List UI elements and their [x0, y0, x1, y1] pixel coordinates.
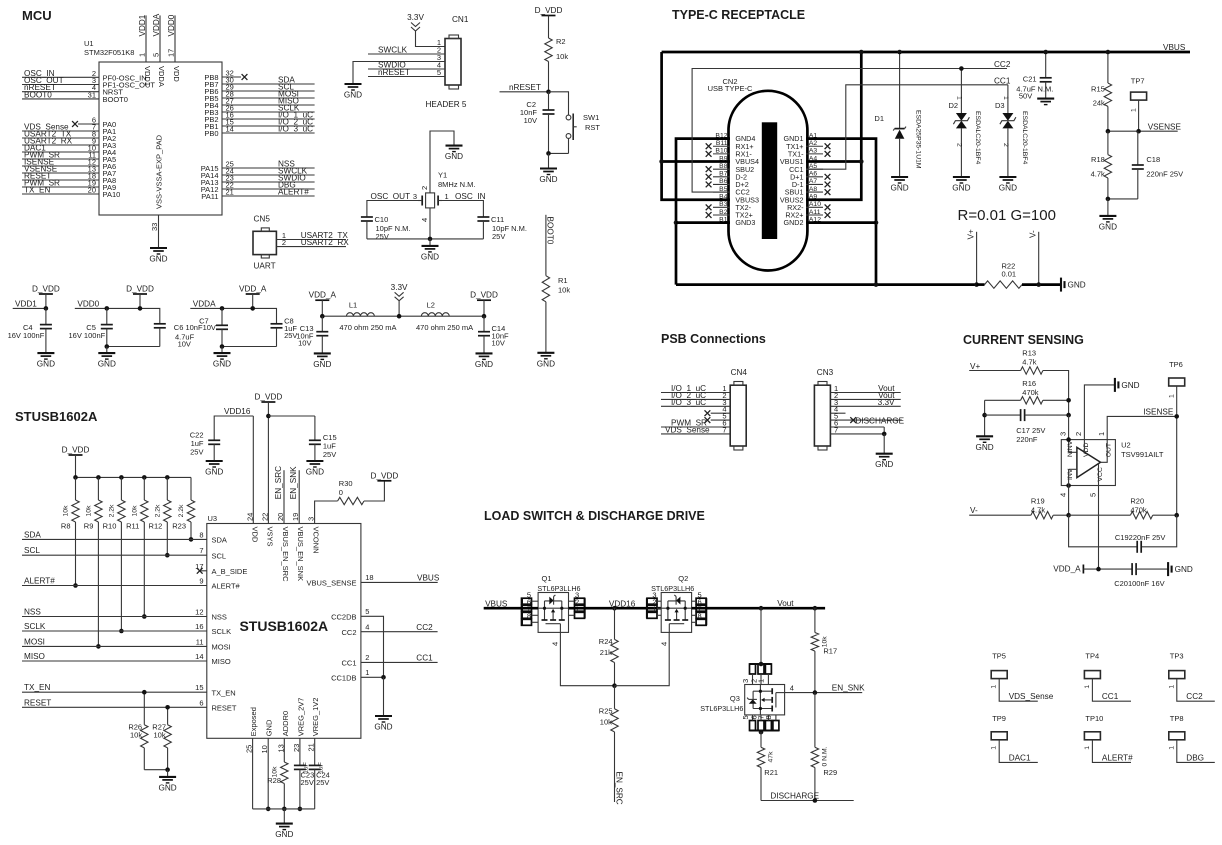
transistor Q1 [538, 593, 568, 633]
junction A4 VBUS [859, 159, 864, 164]
wire TP7 to VSENSE [1138, 100, 1140, 131]
wire BOOT0 to U1 pin 31 [22, 98, 99, 100]
junction nRESET/R2/C2/SW1 [546, 90, 551, 95]
svg-text:SCLK: SCLK [212, 627, 232, 636]
svg-text:8MHz N.M.: 8MHz N.M. [438, 180, 476, 189]
resistor R2 [548, 16, 550, 39]
svg-text:TYPE-C RECEPTACLE: TYPE-C RECEPTACLE [672, 8, 805, 22]
svg-text:ALERT#: ALERT# [212, 582, 241, 591]
wire 3.3V to CN1 pin 1 [416, 31, 446, 47]
U3 pin 17 no-connect stub [200, 570, 207, 572]
ground below C13 [314, 352, 331, 354]
wire V+ tap [976, 232, 978, 285]
resistor R11 [143, 477, 145, 500]
svg-text:C17 25V: C17 25V [1016, 426, 1045, 435]
svg-text:C10: C10 [375, 215, 389, 224]
svg-text:R10: R10 [103, 522, 117, 531]
wire PWM_SR to CN4 pin 6 [661, 426, 730, 428]
svg-text:STL6P3LLH6: STL6P3LLH6 [700, 704, 743, 713]
svg-text:TP3: TP3 [1170, 651, 1184, 660]
svg-text:V-: V- [970, 506, 978, 515]
svg-text:GND: GND [1068, 281, 1086, 290]
svg-text:3.3V: 3.3V [391, 283, 408, 292]
inductor L2 [421, 313, 449, 317]
svg-text:4: 4 [420, 218, 429, 222]
svg-text:2: 2 [365, 653, 369, 662]
svg-text:TX_EN: TX_EN [24, 683, 50, 692]
svg-text:STUSB1602A: STUSB1602A [239, 618, 328, 634]
resistor R17 [814, 608, 816, 632]
svg-text:7: 7 [722, 425, 726, 434]
no-connect X on CN4 pin 5 [705, 417, 711, 423]
wire TP10 to ALERT# [1092, 740, 1131, 763]
wire VBUS to D1 [899, 52, 901, 129]
svg-text:B2: B2 [719, 209, 728, 216]
CN2 pin B8 stub [713, 168, 730, 170]
junction R9 bottom [96, 644, 101, 649]
CN2 pin B12 stub [713, 138, 730, 140]
power 3.3V at filter [395, 292, 404, 296]
wire CC2DB from U3 pin 5 [361, 616, 384, 677]
svg-text:10k: 10k [131, 505, 138, 517]
svg-text:21: 21 [307, 743, 316, 751]
svg-text:R9: R9 [84, 522, 94, 531]
svg-text:R12: R12 [149, 522, 163, 531]
junction Vout R17 [813, 606, 818, 611]
svg-text:8: 8 [527, 612, 531, 621]
junction C7 ground [220, 344, 225, 349]
wire OSC_OUT to C10 [367, 201, 418, 218]
svg-text:1: 1 [138, 53, 147, 57]
svg-text:ESDA25P35-1U1M: ESDA25P35-1U1M [915, 110, 922, 169]
connector CN2 shell [729, 91, 808, 271]
ground rail at receptacle bottom [676, 283, 977, 286]
svg-text:470 ohm 250 mA: 470 ohm 250 mA [416, 323, 473, 332]
wire TP5 to VDS_Sense [999, 679, 1038, 702]
svg-text:2: 2 [956, 143, 963, 147]
svg-text:PA10: PA10 [103, 190, 121, 199]
svg-text:VBUS_EN_SRC: VBUS_EN_SRC [281, 527, 290, 583]
svg-text:GND: GND [445, 152, 463, 161]
no-connect X on A8 [825, 189, 831, 195]
svg-text:TP9: TP9 [992, 714, 1006, 723]
svg-text:R18: R18 [1091, 155, 1105, 164]
U3 bottom ground bus [253, 808, 315, 810]
svg-text:4: 4 [365, 622, 369, 631]
wire OSC_IN to U1 pin 2 [22, 76, 99, 78]
capacitor C21 [1040, 77, 1052, 79]
svg-text:CN4: CN4 [731, 368, 748, 377]
svg-text:VCONN: VCONN [312, 527, 321, 554]
wire SWDIO from U1 pin 23 [222, 181, 315, 183]
junction pull-up bus R12 [165, 475, 170, 480]
svg-text:CC2: CC2 [416, 623, 433, 632]
wire SDA from U1 pin 30 [222, 83, 315, 85]
wire Q1 pin 4 gate [560, 632, 614, 685]
ground below Y1 [422, 245, 439, 247]
resistor R12 [166, 477, 168, 500]
svg-text:ALERT#: ALERT# [24, 577, 55, 586]
Q1 drain pins 3 2 1 [584, 598, 586, 618]
wire VBUS from U3 pin 18 [361, 581, 438, 583]
CN4 pin 4 no-connect stub [711, 412, 731, 414]
svg-text:R15: R15 [1091, 85, 1105, 94]
transistor Q2 [661, 593, 691, 633]
wire V- to R20 [1069, 514, 1131, 516]
svg-text:1: 1 [652, 605, 656, 614]
svg-text:R11: R11 [126, 522, 139, 531]
svg-text:EN_SRC: EN_SRC [615, 772, 624, 805]
svg-text:EN_SNK: EN_SNK [289, 466, 298, 499]
wire C19 feedback loop [1069, 515, 1138, 547]
svg-text:9: 9 [199, 577, 203, 586]
svg-text:Q1: Q1 [542, 574, 552, 583]
Q2 drain pins 3 2 1 [646, 598, 648, 618]
Q2 source pins 5 6 7 8 [705, 598, 707, 625]
wire I/O_3_uC from U1 pin 14 [222, 132, 315, 134]
svg-text:50V: 50V [1019, 91, 1032, 100]
svg-text:GND: GND [875, 460, 893, 469]
svg-text:10k: 10k [85, 505, 92, 517]
wire V- row [969, 514, 1031, 516]
svg-text:CC2: CC2 [1186, 692, 1203, 701]
junction 3.3V [397, 314, 402, 319]
resistor R26 [141, 725, 148, 748]
resistor R18 [1107, 131, 1109, 154]
wire D_VDD to rail [483, 300, 485, 316]
wire B12 GND drop [676, 139, 730, 285]
svg-text:MISO: MISO [212, 657, 231, 666]
svg-text:1: 1 [757, 679, 766, 683]
svg-text:21k: 21k [600, 648, 612, 657]
wire NSS from U1 pin 25 [222, 167, 315, 169]
wire VBUS riser A4 A9 [806, 52, 861, 200]
svg-text:Exposed: Exposed [249, 707, 258, 736]
svg-text:3: 3 [307, 517, 316, 521]
CN2 pin B11 stub [713, 145, 730, 147]
svg-text:DBG: DBG [1186, 753, 1204, 762]
svg-text:7: 7 [199, 546, 203, 555]
svg-text:VDD_A: VDD_A [1053, 565, 1081, 574]
wire TP8 to DBG [1177, 740, 1215, 763]
svg-text:SWCLK: SWCLK [378, 46, 408, 55]
svg-text:A6: A6 [809, 171, 818, 178]
svg-text:R21: R21 [764, 768, 778, 777]
junction C13 [320, 314, 325, 319]
svg-text:220nF: 220nF [1016, 435, 1038, 444]
svg-text:R20: R20 [1130, 497, 1144, 506]
svg-text:TX_EN: TX_EN [212, 688, 236, 697]
wire C17 row left [984, 400, 986, 436]
power 3.3V at CN1 [411, 23, 420, 27]
svg-text:R23: R23 [172, 522, 186, 531]
svg-text:SCL: SCL [24, 546, 40, 555]
wire V- tap [1038, 232, 1040, 285]
svg-text:20: 20 [88, 186, 96, 195]
svg-text:CC1DB: CC1DB [331, 674, 356, 683]
resistor R27 [164, 725, 171, 748]
capacitor C24 [314, 738, 316, 765]
svg-text:V-: V- [1029, 230, 1038, 238]
U1 pin 6 no-connect stub [78, 123, 99, 125]
junction R15 R18 VSENSE [1106, 129, 1111, 134]
wire CN3 pin 6 to ground [830, 426, 884, 428]
svg-text:B10: B10 [715, 148, 727, 155]
CN2 pin B3 stub [713, 206, 730, 208]
wire CCDB to ground [383, 677, 385, 716]
svg-text:25V: 25V [316, 778, 329, 787]
junction C17 left [982, 413, 987, 418]
capacitor C17 [985, 414, 1021, 416]
junction R19 pin4 [1066, 513, 1071, 518]
svg-text:ALERT#: ALERT# [278, 188, 309, 197]
svg-text:1: 1 [1169, 394, 1176, 398]
svg-text:VDD: VDD [250, 527, 259, 543]
svg-text:VREG_2V7: VREG_2V7 [296, 698, 305, 737]
connector CN5 body [253, 231, 276, 254]
svg-text:1: 1 [1168, 746, 1175, 750]
wire VDD1 rail [13, 307, 46, 309]
svg-text:12: 12 [195, 608, 203, 617]
no-connect X on A11 [825, 212, 831, 218]
wire U3 pin 24 VDD [252, 416, 254, 524]
svg-text:A7: A7 [809, 178, 818, 185]
svg-text:10: 10 [260, 745, 269, 753]
capacitor C10 [361, 216, 373, 218]
svg-text:CC1: CC1 [341, 659, 356, 668]
svg-text:D_VDD: D_VDD [371, 471, 399, 480]
wire CC1 to D3 [1007, 85, 1009, 113]
svg-text:LOAD SWITCH & DISCHARGE DRIVE: LOAD SWITCH & DISCHARGE DRIVE [484, 509, 705, 523]
no-connect X on U1 pin 32 [242, 74, 248, 80]
svg-text:ISENSE: ISENSE [1143, 408, 1174, 417]
svg-text:UART: UART [254, 262, 276, 271]
svg-text:13: 13 [276, 744, 285, 752]
CN2 pin B1 stub [713, 222, 730, 224]
switch SW1 [566, 115, 571, 120]
ground below D1 [891, 176, 908, 178]
svg-text:2.2k: 2.2k [108, 504, 115, 517]
power ground at C20 [1167, 562, 1169, 576]
svg-text:VDD1: VDD1 [15, 300, 37, 309]
Q1 source pins 5 6 7 8 [521, 598, 523, 625]
junction pull-up bus R9 [96, 475, 101, 480]
wire op-amp pin3 [1068, 415, 1070, 452]
svg-text:24k: 24k [1093, 99, 1105, 108]
svg-text:D_VDD: D_VDD [535, 6, 563, 15]
wire VDS_Sense to CN4 pin 7 [661, 433, 730, 435]
TVS diode D2 [956, 113, 967, 121]
svg-text:GND: GND [158, 783, 176, 792]
wire Vout from CN3 pin 2 [830, 398, 900, 400]
wire DISCHARGE from CN3 pin 5 [830, 419, 901, 421]
svg-text:R28: R28 [267, 776, 281, 785]
svg-text:8: 8 [199, 530, 203, 539]
wire EN_SRC stub to U3 pin 20 [283, 470, 285, 523]
svg-text:V+: V+ [967, 229, 976, 239]
svg-text:24: 24 [245, 513, 254, 521]
svg-text:D_VDD: D_VDD [470, 291, 498, 300]
svg-text:VDDA: VDDA [152, 13, 161, 36]
svg-text:A2: A2 [809, 140, 818, 147]
svg-text:VSS-VSSA-EXP_PAD: VSS-VSSA-EXP_PAD [155, 134, 164, 209]
wire CC1DB from U3 pin 1 [361, 676, 384, 678]
junction D2 CC2 [959, 66, 964, 71]
svg-text:17: 17 [195, 562, 203, 571]
wire VDD0 rail [75, 308, 160, 323]
svg-text:PA11: PA11 [201, 192, 218, 201]
STUSB1602A U3 body [207, 524, 361, 739]
svg-text:B11: B11 [716, 140, 728, 147]
wire DISCHARGE node [761, 800, 854, 802]
svg-text:220nF 25V: 220nF 25V [1146, 169, 1183, 178]
svg-text:470k: 470k [1022, 388, 1039, 397]
svg-text:VSYS: VSYS [265, 527, 274, 547]
wire TP3 to CC2 [1177, 679, 1215, 702]
no-connect X on U3 pin 17 [197, 568, 203, 574]
wire to ground [167, 770, 169, 777]
ground below C14 [476, 352, 493, 354]
wire U3 pin 25 Exposed [252, 738, 254, 809]
svg-text:USB TYPE-C: USB TYPE-C [708, 84, 753, 93]
svg-text:18: 18 [365, 573, 373, 582]
ground at CN1 pin 3 [345, 83, 362, 85]
svg-text:16: 16 [195, 622, 203, 631]
svg-text:0: 0 [339, 488, 343, 497]
connector CN3 body [814, 385, 830, 446]
no-connect X on A10 [825, 204, 831, 210]
CN2 pin A7 stub [806, 183, 823, 185]
junction pin10 bus [266, 807, 271, 812]
svg-text:GND: GND [313, 360, 331, 369]
wire CC1 net from A5 [806, 85, 1008, 169]
resistor R15 [1104, 83, 1111, 106]
wire SWCLK to CN1 pin 2 [368, 53, 445, 55]
capacitor C6 [154, 323, 166, 325]
junction D_VDD VDD16 C15 [266, 414, 271, 419]
connector CN2 center tongue [762, 122, 777, 239]
junction B1 on ground riser [674, 220, 679, 225]
resistor R21 [760, 732, 762, 747]
ground below C5 [98, 352, 115, 354]
svg-text:2: 2 [420, 186, 429, 190]
svg-text:NSS: NSS [24, 608, 41, 617]
junction R10 bottom [119, 629, 124, 634]
wire CN3 pin 7 to ground [830, 427, 884, 434]
junction C5 ground [105, 344, 110, 349]
ground below C17 [976, 435, 993, 437]
wire 3.3V to rail [398, 301, 400, 316]
svg-text:CC2: CC2 [994, 60, 1011, 69]
wire MOSI from U1 pin 28 [222, 97, 315, 99]
pull-up bus wire [76, 476, 192, 478]
wire VDS_Sense to U1 pin 7 [22, 130, 99, 132]
junction VDD0/D_VDD [138, 306, 143, 311]
svg-text:10k: 10k [130, 731, 142, 740]
junction R23 bottom [189, 537, 194, 542]
svg-text:4: 4 [551, 642, 560, 646]
svg-text:1: 1 [365, 668, 369, 677]
svg-text:10k: 10k [63, 505, 70, 517]
capacitor C23 [299, 738, 301, 765]
wire B1 to ground riser [676, 221, 730, 224]
svg-text:R=0.01 G=100: R=0.01 G=100 [958, 207, 1056, 224]
wire VBUS top rail [662, 51, 1190, 54]
svg-text:L2: L2 [427, 301, 435, 310]
junction ground rail A-side [874, 282, 879, 287]
svg-text:6: 6 [199, 698, 203, 707]
wire RESET to R27 [167, 707, 169, 724]
junction VDD16 R24 [612, 606, 617, 611]
wire VBUS left drop to B9 and B4 [662, 52, 730, 200]
svg-text:R13: R13 [1022, 349, 1036, 358]
wire op-amp pin5 VCC [1098, 464, 1100, 569]
junction C14 [482, 314, 487, 319]
junction RESET R27 [165, 705, 170, 710]
svg-text:CN5: CN5 [254, 215, 271, 224]
wire net VDD1 to U1 pin 1 [145, 15, 147, 62]
svg-text:R24: R24 [599, 637, 613, 646]
svg-text:SCL: SCL [212, 551, 227, 560]
resistor R20 [1130, 512, 1152, 519]
wire PWM_SR to U1 pin 11 [22, 158, 99, 160]
svg-text:MISO: MISO [24, 652, 45, 661]
svg-text:5: 5 [152, 53, 161, 57]
capacitor C2 [548, 92, 550, 110]
wire crystal ground bus [367, 238, 484, 240]
resistor R28 on ADDR0 [283, 738, 285, 762]
svg-text:VDDA: VDDA [157, 66, 166, 87]
wire USART2_RX from CN5 pin 2 [276, 246, 346, 248]
wire TX_EN to R26 [143, 692, 145, 725]
CN2 pin B6 stub [713, 183, 730, 185]
svg-text:GND: GND [421, 252, 439, 261]
svg-text:GND: GND [213, 360, 231, 369]
junction VDDA/VDD_A [250, 306, 255, 311]
svg-text:GND3: GND3 [735, 218, 755, 227]
svg-text:TSV991AILT: TSV991AILT [1121, 450, 1164, 459]
wire EN_SNK stub to U3 pin 19 [298, 470, 300, 523]
capacitor C8 [271, 323, 283, 325]
wire VBUS to C21 [1045, 52, 1047, 78]
svg-text:5: 5 [1088, 493, 1097, 497]
svg-text:VBUS_EN_SNK: VBUS_EN_SNK [296, 527, 305, 582]
ground below D2 [953, 176, 970, 178]
svg-text:GND: GND [890, 184, 908, 193]
svg-text:CC1: CC1 [994, 76, 1011, 85]
svg-text:4.7k: 4.7k [1091, 169, 1105, 178]
svg-text:3.3V: 3.3V [878, 398, 895, 407]
svg-text:2: 2 [1002, 143, 1009, 147]
CN2 pin A2 stub [806, 145, 823, 147]
no-connect X on B3 [706, 204, 712, 210]
junction D1 VBUS [897, 50, 902, 55]
junction pull-up bus R10 [119, 475, 124, 480]
svg-text:VBUS: VBUS [1163, 43, 1186, 52]
junction R20 TP6 column [1174, 513, 1179, 518]
svg-text:HEADER 5: HEADER 5 [426, 100, 467, 109]
svg-text:470k: 470k [1130, 506, 1147, 515]
junction EN_SNK R17 R29 [813, 690, 818, 695]
resistor R8 [75, 477, 77, 500]
svg-text:25: 25 [245, 745, 254, 753]
svg-text:GND: GND [306, 468, 324, 477]
Q3 source pins 5 6 7 8 [750, 730, 779, 732]
svg-text:25V: 25V [492, 232, 505, 241]
svg-text:BOOT0: BOOT0 [103, 95, 128, 104]
svg-text:VDD1: VDD1 [138, 14, 147, 36]
junction CC1DB CC2DB [381, 675, 386, 680]
